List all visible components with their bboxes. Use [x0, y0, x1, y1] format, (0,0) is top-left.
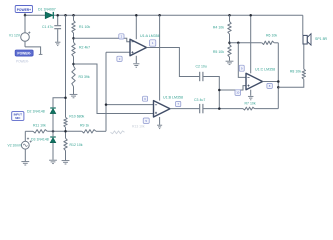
svg-text:MIC: MIC: [15, 116, 20, 120]
wire C2 to node: [203, 77, 219, 109]
node tap2: [72, 63, 75, 66]
wire U1:A V+ stub: [135, 15, 137, 39]
wire V1 to POWER- terminal: [25, 47, 41, 54]
svg-text:R4 10k: R4 10k: [213, 26, 224, 30]
diode D2: [50, 108, 56, 114]
label U1:B LM358: [163, 96, 183, 100]
speaker SP1: [303, 34, 311, 45]
node plus-branch: [218, 89, 221, 92]
label D2 1N4148: [27, 110, 45, 114]
node rail-U1C: [249, 14, 252, 16]
node rail-ladder: [72, 14, 75, 16]
wire R8 to output node: [278, 79, 304, 87]
wire U1:A non-inverting input: [106, 51, 130, 53]
wire tap1 to U1:A inverting input: [74, 38, 131, 42]
wire tap2 to U1:B non-inverting input: [74, 64, 154, 114]
svg-text:C2 10u: C2 10u: [196, 65, 207, 69]
label D3 1N4148: [27, 138, 49, 142]
node rail-Rchain: [228, 14, 231, 16]
pin box U1:C pin9: [239, 65, 244, 71]
resistor R2: [72, 42, 75, 56]
label R12 10k: [70, 143, 83, 147]
op-amp U1:A: [130, 39, 147, 56]
pin box U1:B pin5: [143, 118, 149, 123]
wire left column upper: [65, 15, 67, 117]
capacitor C1: [54, 15, 61, 42]
pin box U1:B pin7: [176, 101, 181, 106]
pin box U1:A pin2: [119, 34, 124, 39]
label R8 10k: [290, 70, 301, 74]
svg-text:R1 10k: R1 10k: [79, 25, 90, 29]
label C1 47u: [42, 25, 53, 29]
svg-text:V1 12V: V1 12V: [9, 33, 21, 37]
svg-text:U1:B LM358: U1:B LM358: [163, 96, 183, 100]
svg-text:D3 1N4148: D3 1N4148: [31, 138, 49, 142]
node diode column: [52, 130, 55, 133]
label R9 1k: [80, 124, 89, 128]
wire to U1:C inverting input: [238, 43, 246, 78]
label U1:A LM358: [140, 34, 160, 38]
ground U1:C: [248, 96, 253, 99]
svg-text:R12 10k: R12 10k: [70, 143, 83, 147]
wire POWER+ stub: [24, 13, 26, 16]
label R1 10k: [79, 25, 90, 29]
wire VSIG riser: [24, 131, 26, 141]
node output-fb: [277, 80, 280, 83]
svg-text:R11 10k: R11 10k: [33, 124, 46, 128]
voltage source VSIG: [21, 141, 31, 150]
label R2 4k7: [79, 46, 90, 50]
ghost resistor: [111, 131, 125, 134]
label R4 10k: [213, 26, 224, 30]
wire R7 to feedback column: [255, 108, 279, 110]
node rail-col: [64, 14, 67, 16]
wire D2 stem: [52, 114, 54, 132]
op-amp U1:C: [246, 73, 263, 89]
wire bottom segment c: [96, 130, 106, 132]
node minus-branch: [237, 42, 240, 45]
wire R4-R5: [229, 34, 231, 45]
wire R4 stub: [229, 15, 231, 21]
resistor R3: [72, 66, 75, 87]
node U1A+ junction: [105, 103, 108, 106]
label SP1 8R: [315, 37, 328, 41]
wire R5 to ground: [229, 57, 231, 61]
svg-text:R7 10k: R7 10k: [245, 101, 256, 105]
svg-text:V2 10mV: V2 10mV: [8, 143, 22, 147]
wire U1:B V+ line: [159, 15, 161, 100]
svg-text:POWER-: POWER-: [16, 59, 29, 63]
label C2 10u: [196, 65, 207, 69]
svg-text:D1 1N4007: D1 1N4007: [38, 8, 56, 12]
ground U1:B: [157, 125, 162, 128]
svg-text:R9 1k: R9 1k: [80, 124, 89, 128]
wire U1:C V- stub: [250, 90, 252, 96]
node output-spk: [277, 86, 280, 89]
node D2-column: [64, 96, 67, 99]
node rail-U1B: [158, 14, 161, 16]
resistor R9: [82, 130, 96, 133]
wire R6 to feedback column: [274, 42, 278, 44]
label V1 12V: [9, 33, 21, 37]
wire bottom segment a: [25, 130, 33, 132]
wire U1:B inverting input: [106, 104, 154, 106]
pin box U1:C pin8: [267, 83, 272, 88]
svg-text:10: 10: [236, 91, 240, 95]
label R6 10k: [266, 34, 277, 38]
net label POWER+: [15, 6, 32, 13]
wire R12 to ground: [65, 151, 67, 161]
svg-text:POWER+: POWER+: [17, 8, 31, 12]
svg-text:U1:A LM358: U1:A LM358: [140, 34, 160, 38]
wire R2-R3: [73, 57, 75, 67]
label R3 39k: [79, 75, 90, 79]
ground U1:A: [133, 64, 139, 67]
label C3 4u7: [194, 98, 205, 102]
ground R5: [226, 61, 234, 64]
op-amp U1:B: [154, 101, 171, 117]
wire ladder top stub: [73, 15, 75, 20]
ground D3: [49, 160, 57, 163]
svg-text:C3 4u7: C3 4u7: [194, 98, 205, 102]
resistor R8: [302, 69, 305, 79]
svg-text:R8 10k: R8 10k: [290, 70, 301, 74]
capacitor C2: [200, 72, 203, 81]
label VSIG: [8, 143, 22, 147]
wire bottom segment b: [47, 130, 82, 132]
resistor R5: [228, 45, 231, 58]
capacitor C3: [200, 104, 203, 113]
label R7 10k: [245, 101, 256, 105]
wire D3 to ground: [52, 143, 54, 160]
wire left column lower: [65, 127, 67, 138]
svg-text:POWER-: POWER-: [17, 52, 31, 56]
svg-text:U1:C LM358: U1:C LM358: [255, 68, 275, 72]
pin box U1:C pin10: [235, 90, 241, 96]
ground R3: [70, 94, 78, 97]
wire node to U1:C non-inverting input: [219, 86, 246, 90]
label D1 1N4007: [38, 8, 56, 12]
wire D2 to column: [53, 98, 66, 108]
wire U1:C V+ line: [250, 15, 252, 73]
svg-text:R13 10k: R13 10k: [132, 124, 145, 128]
node C-node: [218, 107, 221, 110]
wire top supply rail: [25, 14, 303, 16]
wire VSIG to ground: [24, 149, 26, 161]
wire feedback column: [277, 43, 279, 109]
resistor R6: [262, 41, 274, 44]
wire rail to speaker: [302, 15, 304, 35]
wire R3 to ground: [73, 87, 75, 95]
wire D3 stem: [52, 131, 54, 137]
wire R1-R2: [73, 33, 75, 42]
wire U1:C output: [263, 81, 279, 83]
node rail-C1: [56, 14, 59, 16]
voltage source V1: [21, 15, 31, 47]
label U1:C LM358: [255, 68, 275, 72]
terminal pin cross: [39, 53, 43, 55]
wire speaker to R8: [303, 44, 305, 69]
ground VSIG: [21, 162, 29, 165]
diode D3: [50, 137, 56, 143]
wire C3 to node: [203, 108, 243, 110]
svg-text:R2 4k7: R2 4k7: [79, 46, 90, 50]
wire U1:A output: [147, 48, 200, 77]
ghost label: [132, 124, 145, 128]
resistor R4: [228, 22, 231, 35]
wire U1:B output: [170, 108, 199, 110]
resistor R7: [243, 107, 255, 110]
node ref tap: [228, 42, 231, 45]
node tap1: [72, 37, 75, 40]
wire U1:A V- stub: [135, 56, 137, 63]
node rail-V1: [24, 14, 27, 16]
ground R12: [62, 161, 70, 164]
svg-text:D2 1N4148: D2 1N4148: [27, 110, 45, 114]
label R5 10k: [213, 50, 224, 54]
pin box U1:A pin1: [150, 40, 156, 46]
ground C1: [55, 42, 60, 45]
svg-text:R5 10k: R5 10k: [213, 50, 224, 54]
svg-text:SP1 8R: SP1 8R: [315, 37, 328, 41]
svg-text:R3 39k: R3 39k: [79, 75, 90, 79]
wire U1:A + down to bottom net: [105, 52, 107, 131]
resistor R1: [72, 21, 75, 34]
pin box U1:A pin3: [117, 56, 122, 61]
resistor R10: [64, 117, 67, 127]
svg-text:R6 10k: R6 10k: [266, 34, 277, 38]
node column bottom: [64, 130, 67, 133]
pin box U1:B pin6: [143, 96, 148, 101]
wire ref tap to R6: [230, 42, 262, 44]
resistor R12: [64, 138, 67, 150]
svg-text:C1 47u: C1 47u: [42, 25, 53, 29]
label R11 10k: [33, 124, 46, 128]
label R10 680k: [69, 115, 84, 119]
svg-text:R10 680k: R10 680k: [69, 115, 84, 119]
wire U1:B V- stub: [159, 117, 161, 125]
resistor R11: [33, 130, 47, 133]
node rail-U1A: [135, 14, 138, 16]
net label POWER-: [15, 50, 33, 63]
diode D1: [45, 12, 53, 19]
net label INPUT: [12, 112, 24, 121]
